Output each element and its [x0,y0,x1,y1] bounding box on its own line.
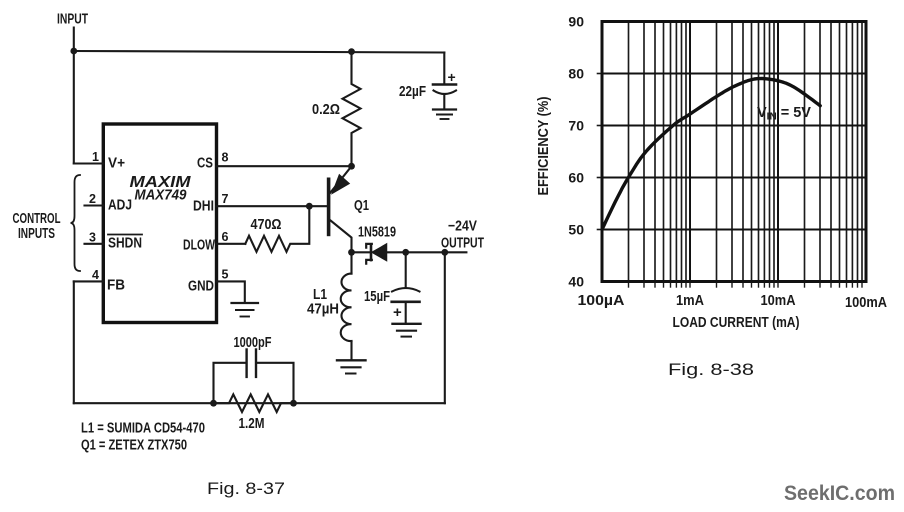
svg-text:LOAD CURRENT (mA): LOAD CURRENT (mA) [673,315,800,331]
svg-text:15µF: 15µF [364,289,390,305]
svg-text:+: + [393,304,402,321]
wire input vertical [73,28,75,164]
resistor 1.2M [214,394,294,412]
svg-text:22µF: 22µF [399,84,426,100]
junction top of 0.2ohm [348,48,355,55]
svg-text:80: 80 [568,66,584,82]
svg-text:1.2M: 1.2M [239,416,265,432]
junction DHI/DLOW node [306,203,313,210]
transistor Q1 base bar [327,179,331,234]
capacitor 15uF [405,252,407,288]
svg-text:1: 1 [92,150,99,164]
svg-text:100mA: 100mA [845,295,887,311]
svg-text:50: 50 [568,222,584,238]
brace for control inputs [71,175,81,271]
wire pin7 DHI to Q1 base [217,205,329,207]
svg-text:40: 40 [568,274,584,290]
svg-text:−24V: −24V [448,219,477,235]
diode D1 1N5819 schottky [370,245,373,261]
svg-text:SeekIC.com: SeekIC.com [784,481,895,505]
wire switch node to diode [352,251,370,253]
svg-text:1N5819: 1N5819 [358,225,396,241]
graph grid Fig 8-38 [602,22,866,282]
ground below L1 [337,359,366,361]
transistor Q1 emitter with arrow [331,166,352,192]
svg-text:5: 5 [222,267,229,281]
svg-text:Fig. 8-37: Fig. 8-37 [207,479,285,498]
capacitor 22uF [443,53,445,85]
ground below 15uF [393,323,421,325]
svg-text:7: 7 [222,192,229,206]
svg-text:470Ω: 470Ω [251,217,282,233]
transistor Q1 collector [331,221,352,253]
svg-text:VIN = 5V: VIN = 5V [757,105,811,123]
wire pin2 ADJ stub [85,204,104,206]
junction feedback right [290,400,297,407]
wire pin6 DLOW lead [217,243,246,245]
wire output down [444,252,446,403]
svg-text:FB: FB [107,278,125,294]
wire pin4 FB [74,280,104,282]
junction CS node [348,163,355,170]
wire diode to output [387,251,467,253]
svg-text:4: 4 [92,268,99,282]
svg-text:Q1: Q1 [354,198,369,214]
svg-text:+: + [448,69,456,85]
svg-text:INPUT: INPUT [57,12,88,28]
op-amp U1 MAX749 IC body [103,124,216,323]
wire pin1 V+ [74,162,104,164]
graph axis ticks [629,282,863,288]
inductor L1 [350,252,352,273]
ground at pin5 [232,302,259,304]
svg-text:2: 2 [89,192,96,206]
wire feedback bottom [74,402,445,404]
svg-text:60: 60 [568,170,584,186]
svg-text:OUTPUT: OUTPUT [441,236,484,252]
junction switch node [348,249,355,256]
svg-text:10mA: 10mA [761,293,796,309]
svg-text:GND: GND [188,279,214,295]
graph plot border [602,22,866,282]
svg-text:CS: CS [197,156,213,172]
wire top rail [74,51,445,53]
svg-text:70: 70 [568,118,584,134]
svg-text:SHDN: SHDN [108,236,142,252]
junction 15uF top [402,249,409,256]
svg-text:EFFICIENCY (%): EFFICIENCY (%) [536,96,552,195]
svg-text:3: 3 [89,230,96,244]
svg-text:Q1 = ZETEX ZTX750: Q1 = ZETEX ZTX750 [81,438,187,454]
svg-text:INPUTS: INPUTS [18,226,55,242]
capacitor 1000pF branch [214,363,247,403]
junction feedback left [210,400,217,407]
svg-text:0.2Ω: 0.2Ω [312,102,340,118]
svg-text:V+: V+ [108,156,125,172]
svg-text:100µA: 100µA [578,293,626,309]
wire pin5 GND [217,281,245,302]
wire pin8 CS [217,165,352,167]
resistor 0.2ohm [343,52,361,167]
svg-text:1000pF: 1000pF [234,335,272,351]
svg-text:L1 = SUMIDA CD54-470: L1 = SUMIDA CD54-470 [81,421,205,437]
svg-text:47µH: 47µH [307,302,339,318]
ground below 22uF [433,108,456,110]
svg-text:DLOW: DLOW [183,238,215,254]
svg-text:1mA: 1mA [676,293,704,309]
svg-text:6: 6 [222,230,229,244]
svg-text:Fig. 8-38: Fig. 8-38 [668,360,754,379]
svg-text:8: 8 [222,151,229,165]
graph efficiency curve [602,79,820,230]
junction output node [441,249,448,256]
wire pin3 SHDN stub [85,243,104,245]
graph y axis ticks [598,229,603,231]
svg-text:ADJ: ADJ [108,198,132,214]
svg-text:DHI: DHI [193,199,214,215]
wire FB left vertical [73,281,75,403]
svg-text:MAX749: MAX749 [135,188,187,204]
junction input node [70,48,77,55]
resistor 470ohm [245,206,309,252]
svg-text:90: 90 [568,14,584,30]
svg-text:CONTROL: CONTROL [13,211,61,227]
